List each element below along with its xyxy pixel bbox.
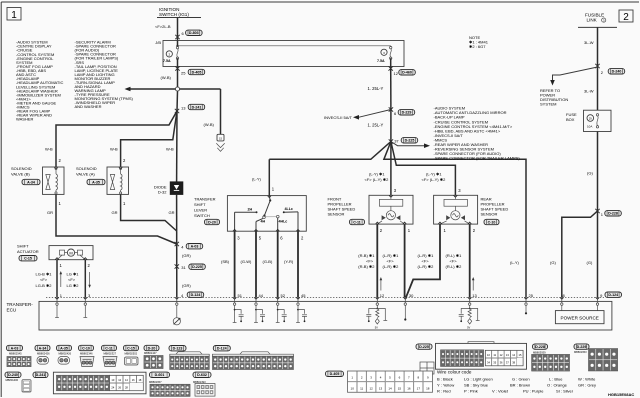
svg-text:D-240: D-240 — [612, 70, 622, 74]
svg-text:11: 11 — [360, 386, 363, 390]
svg-text:POWER SOURCE: POWER SOURCE — [561, 315, 599, 320]
svg-text:14: 14 — [388, 386, 392, 390]
svg-text:V : Violet: V : Violet — [492, 389, 509, 394]
svg-text:D-229: D-229 — [577, 345, 587, 349]
svg-text:C-15: C-15 — [127, 346, 135, 350]
svg-text:(L-R) ✱2: (L-R) ✱2 — [383, 264, 400, 269]
svg-text:4LLc: 4LLc — [285, 207, 293, 211]
svg-text:A-34: A-34 — [39, 346, 47, 350]
svg-text:D-405: D-405 — [330, 372, 340, 376]
svg-text:D-228: D-228 — [608, 212, 618, 216]
svg-text:4H: 4H — [261, 220, 266, 224]
svg-text:SOLENOID: SOLENOID — [11, 166, 32, 171]
svg-text:1. 25L-Y: 1. 25L-Y — [368, 122, 384, 127]
svg-text:D-460: D-460 — [402, 71, 412, 75]
svg-text:LINK: LINK — [587, 18, 598, 23]
svg-text:D-241: D-241 — [36, 373, 46, 377]
svg-text:INVECS-II 5A/T: INVECS-II 5A/T — [324, 115, 353, 120]
svg-text:(L-Y): (L-Y) — [252, 176, 262, 181]
svg-text:<F>: <F> — [387, 258, 395, 263]
svg-text:(L-R) ✱1: (L-R) ✱1 — [418, 253, 435, 258]
svg-text:SHIFT: SHIFT — [194, 202, 206, 207]
svg-text:D-225: D-225 — [405, 139, 415, 143]
svg-text:-SPARE CONNECTOR (FOR TRAILER: -SPARE CONNECTOR (FOR TRAILER LAMPS) — [434, 156, 521, 161]
svg-text:B : Black: B : Black — [437, 377, 453, 382]
svg-text:31: 31 — [181, 265, 186, 270]
svg-text:SOLENOID: SOLENOID — [76, 166, 97, 171]
svg-text:(R-L) ✱1: (R-L) ✱1 — [446, 253, 463, 258]
svg-text:HGB15E08AC: HGB15E08AC — [608, 392, 634, 397]
svg-text:TRANSFER: TRANSFER — [194, 197, 216, 202]
svg-text:ECU: ECU — [7, 307, 17, 312]
svg-text:A-03: A-03 — [11, 346, 19, 350]
svg-text:(Y-R): (Y-R) — [284, 259, 294, 264]
svg-text:TRANSFER-: TRANSFER- — [7, 302, 34, 307]
svg-text:BR : Brown: BR : Brown — [510, 383, 530, 388]
svg-text:D-229: D-229 — [402, 111, 412, 115]
svg-text:GR: GR — [112, 210, 118, 215]
svg-text:W-B: W-B — [45, 147, 53, 152]
svg-text:D-20: D-20 — [208, 220, 216, 224]
svg-text:MB802327: MB802327 — [104, 351, 117, 355]
svg-text:D-405: D-405 — [192, 70, 202, 74]
svg-text:Wire colour code: Wire colour code — [437, 369, 472, 374]
svg-text:O : Orange: O : Orange — [547, 383, 568, 388]
svg-text:<F>: <F> — [68, 277, 76, 282]
svg-text:VALVE (B): VALVE (B) — [11, 172, 30, 177]
svg-text:(G-B): (G-B) — [263, 259, 273, 264]
svg-text:13: 13 — [379, 386, 383, 390]
svg-text:GR: GR — [47, 210, 53, 215]
svg-text:PU : Purple: PU : Purple — [523, 389, 544, 394]
svg-text:ACTUATOR: ACTUATOR — [17, 249, 39, 254]
svg-text:D-225: D-225 — [192, 265, 202, 269]
svg-text:MB801653: MB801653 — [574, 350, 587, 354]
svg-text:Y : Yellow: Y : Yellow — [437, 383, 454, 388]
svg-text:18: 18 — [426, 386, 430, 390]
svg-text:A-34: A-34 — [27, 180, 35, 184]
svg-text:D-124: D-124 — [608, 293, 618, 297]
svg-text:37: 37 — [394, 139, 399, 144]
svg-text:4HLc: 4HLc — [279, 220, 288, 224]
svg-text:D-241: D-241 — [192, 105, 202, 109]
svg-text:(G-W): (G-W) — [241, 259, 253, 264]
svg-text:A-03: A-03 — [191, 245, 199, 249]
svg-text:SB : Sky blue: SB : Sky blue — [464, 383, 489, 388]
svg-text:<F>: <F> — [366, 258, 374, 263]
svg-text:17: 17 — [417, 386, 421, 390]
svg-text:(L-R) ✱2: (L-R) ✱2 — [418, 264, 435, 269]
svg-text:VALVE (A): VALVE (A) — [76, 172, 95, 177]
svg-text:D-803: D-803 — [189, 31, 199, 35]
svg-text:SENSOR: SENSOR — [328, 211, 345, 216]
svg-text:M: M — [69, 250, 72, 255]
svg-text:<F>2L-B: <F>2L-B — [155, 24, 171, 29]
svg-text:C-11: C-11 — [105, 346, 113, 350]
svg-text:MB801400: MB801400 — [6, 378, 19, 382]
svg-text:AND WASHER: AND WASHER — [75, 104, 102, 109]
svg-text:SENSOR: SENSOR — [481, 211, 498, 216]
svg-text:A-35: A-35 — [92, 180, 100, 184]
svg-text:A-35: A-35 — [60, 346, 68, 350]
svg-text:L : Blue: L : Blue — [549, 377, 563, 382]
svg-text:2: 2 — [623, 12, 629, 23]
svg-text:C-10: C-10 — [82, 346, 90, 350]
svg-text:SWITCH: SWITCH — [194, 213, 210, 218]
svg-text:W-B: W-B — [166, 147, 174, 152]
svg-text:D-124: D-124 — [191, 293, 201, 297]
svg-text:C-10: C-10 — [488, 220, 496, 224]
svg-text:LG ✱2: LG ✱2 — [67, 283, 80, 288]
svg-text:<F>: <F> — [450, 258, 458, 263]
svg-text:12: 12 — [394, 71, 399, 76]
svg-text:MB803939: MB803939 — [533, 351, 546, 355]
svg-text:LG : Light green: LG : Light green — [464, 377, 493, 382]
svg-text:(W-B): (W-B) — [204, 122, 215, 127]
svg-text:1. 25L-Y: 1. 25L-Y — [368, 86, 384, 91]
svg-text:D-601: D-601 — [155, 373, 165, 377]
svg-text:D-124: D-124 — [217, 347, 227, 351]
svg-text:R : Red: R : Red — [437, 389, 451, 394]
svg-text:LG ✱1: LG ✱1 — [67, 272, 80, 277]
svg-text:SYSTEM: SYSTEM — [540, 102, 556, 107]
svg-text:15: 15 — [398, 386, 402, 390]
svg-text:J/B: J/B — [155, 40, 161, 45]
svg-text:MB801657: MB801657 — [149, 380, 162, 384]
svg-text:W-B: W-B — [110, 147, 118, 152]
svg-text:MB802545: MB802545 — [9, 351, 22, 355]
svg-text:C-15: C-15 — [24, 257, 32, 261]
svg-text:(G): (G) — [587, 170, 593, 175]
svg-text:SHIFT: SHIFT — [17, 244, 29, 249]
svg-text:5V: 5V — [375, 326, 378, 330]
svg-text:(W-B): (W-B) — [161, 75, 172, 80]
svg-text:MB802426: MB802426 — [59, 351, 72, 355]
svg-text:(SB): (SB) — [221, 259, 230, 264]
svg-text:LG-B ✱2: LG-B ✱2 — [36, 283, 53, 288]
svg-text:7.5A: 7.5A — [163, 59, 171, 63]
svg-text:LG-B ✱1: LG-B ✱1 — [36, 272, 53, 277]
svg-text:2H: 2H — [248, 208, 253, 212]
svg-text:<F>: <F> — [40, 277, 48, 282]
svg-text:MB802502: MB802502 — [125, 351, 138, 355]
svg-text:MB802346: MB802346 — [80, 351, 93, 355]
svg-text:D-632: D-632 — [197, 373, 207, 377]
svg-text:10A: 10A — [587, 124, 592, 128]
svg-text:D-228: D-228 — [535, 345, 545, 349]
svg-text:D-225: D-225 — [419, 345, 429, 349]
svg-text:(L-Y) ✱1: (L-Y) ✱1 — [426, 171, 442, 176]
svg-text:W : White: W : White — [578, 377, 596, 382]
svg-text:(L-R) ✱1: (L-R) ✱1 — [383, 253, 400, 258]
svg-text:25: 25 — [181, 70, 186, 75]
svg-text:(L-Y): (L-Y) — [510, 260, 520, 265]
svg-text:3L-W: 3L-W — [584, 89, 594, 94]
svg-text:D-240: D-240 — [8, 373, 18, 377]
svg-text:D-32: D-32 — [158, 190, 167, 195]
svg-text:12: 12 — [369, 386, 373, 390]
svg-text:16: 16 — [407, 386, 411, 390]
svg-text:C-11: C-11 — [353, 220, 361, 224]
svg-text:P : Pink: P : Pink — [464, 389, 478, 394]
svg-text:(R-B) ✱2: (R-B) ✱2 — [358, 264, 375, 269]
svg-text:3L-W: 3L-W — [584, 40, 594, 45]
svg-text:✱2 : 6G7: ✱2 : 6G7 — [469, 44, 486, 49]
svg-text:D-20: D-20 — [148, 346, 156, 350]
svg-text:GR: GR — [169, 210, 175, 215]
svg-text:MB802426: MB802426 — [37, 351, 50, 355]
svg-text:13: 13 — [181, 106, 186, 111]
svg-text:(R-B) ✱1: (R-B) ✱1 — [358, 253, 375, 258]
svg-text:BOX: BOX — [566, 117, 575, 122]
svg-text:10: 10 — [351, 386, 355, 390]
svg-text:WASHER: WASHER — [16, 117, 34, 122]
svg-text:G : Green: G : Green — [512, 377, 530, 382]
svg-text:GR : Grey: GR : Grey — [578, 383, 596, 388]
svg-text:(R-L) ✱2: (R-L) ✱2 — [446, 264, 463, 269]
svg-text:<F> (L-Y) ✱2: <F> (L-Y) ✱2 — [422, 177, 447, 182]
svg-text:<F> (L-Y) ✱2: <F> (L-Y) ✱2 — [365, 177, 390, 182]
svg-text:(L-Y) ✱1: (L-Y) ✱1 — [369, 171, 385, 176]
svg-text:SWITCH (IG1): SWITCH (IG1) — [159, 12, 189, 17]
svg-text:5V: 5V — [467, 326, 470, 330]
svg-text:(G): (G) — [587, 260, 593, 265]
svg-text:(G): (G) — [550, 260, 556, 265]
svg-text:SI : Silver: SI : Silver — [556, 389, 574, 394]
svg-text:7.5A: 7.5A — [377, 59, 385, 63]
svg-text:<F>: <F> — [422, 258, 430, 263]
svg-text:D-123: D-123 — [173, 347, 183, 351]
svg-text:(GR): (GR) — [182, 283, 191, 288]
svg-text:MB801447: MB801447 — [144, 351, 157, 355]
svg-text:LEVER: LEVER — [194, 208, 207, 213]
svg-text:1: 1 — [11, 10, 17, 21]
svg-text:(GR): (GR) — [182, 253, 191, 258]
